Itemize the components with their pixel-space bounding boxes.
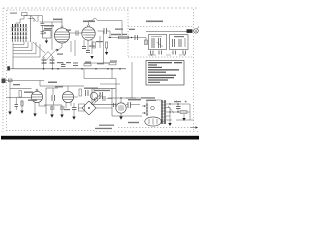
record player box [92, 89, 116, 105]
can capacitor [79, 104, 85, 111]
antenna lead-in staircase [12, 16, 31, 32]
tuning arrow [46, 49, 57, 61]
filter choke [180, 111, 187, 114]
V3 leads [35, 102, 46, 114]
power transformer T2 primary [146, 103, 148, 116]
T2 top lead [147, 100, 162, 103]
AVC dropping wire [104, 31, 111, 63]
V1 screen components [84, 36, 100, 54]
cap C4a [82, 47, 86, 49]
ground arrow mid [20, 111, 23, 114]
page edge dashed rule [3, 7, 198, 9]
text smudges [10, 13, 184, 130]
node dots on bus [43, 68, 121, 70]
notes text lines [148, 62, 182, 83]
terminal blob [7, 66, 10, 70]
plate resistor R6 [79, 89, 81, 96]
IF wiring row [108, 37, 146, 39]
rectifier tube V5 [116, 103, 126, 113]
cable bundle to plug [187, 29, 193, 33]
vertical from power to audio [126, 62, 146, 98]
T1 windings [152, 38, 154, 48]
B+ wires [166, 104, 190, 120]
cathode resistor R7 [21, 100, 23, 108]
switch wiper diagonal [33, 42, 45, 53]
comp above bus 2 [73, 63, 78, 66]
audio line [7, 97, 32, 99]
pilot wire [176, 119, 194, 121]
speaker feed wire [146, 31, 188, 33]
coupling cap C6 [52, 95, 55, 101]
antenna terminal box [22, 13, 28, 16]
V1 top lead [40, 18, 62, 26]
cap C4 [86, 51, 90, 53]
chassis dashed border vertical x128 [127, 10, 129, 58]
volume control line [4, 80, 44, 82]
phono jack diamond [82, 101, 96, 115]
electrolytic cap C7 [50, 107, 55, 109]
speaker field coil box [170, 35, 189, 50]
wire hook 3 [13, 42, 32, 51]
plug P1 [194, 29, 199, 34]
antenna wire lower [28, 19, 34, 23]
ground arrow ps [169, 112, 171, 123]
first audio tube V3 [31, 91, 42, 102]
speaker box dashed top [128, 26, 194, 28]
wire hook 2 [13, 42, 28, 48]
plus marks [175, 100, 187, 102]
grid cap C0 [42, 16, 51, 31]
wire hook 4 [13, 42, 36, 54]
wire above bus [84, 62, 108, 64]
converter tube V1 [54, 28, 69, 43]
grid resistor R5 [19, 91, 21, 98]
band switch diagonal [31, 16, 37, 22]
resistor R3 [93, 42, 95, 48]
V3 grid cap [36, 89, 38, 91]
IF amp tube V2 [82, 27, 95, 40]
small cap [135, 35, 138, 40]
tuning gang capacitor C1 [43, 52, 53, 58]
AVC bus wire [8, 68, 126, 70]
ground arrow under V3 [33, 114, 36, 117]
V1 grid cap circle [61, 26, 63, 28]
coil tap rungs [10, 28, 28, 39]
electrolytic cap C8 [60, 107, 65, 109]
page fold dashed line [96, 130, 198, 132]
primary terminals [144, 105, 146, 114]
caps right of V5 [128, 102, 131, 108]
on/off switch circle [151, 106, 155, 110]
dropper to speaker plug [145, 38, 147, 45]
ground arrow ps2 [183, 114, 185, 118]
chassis dashed border bottom right segment [118, 127, 194, 129]
speaker caps row [151, 51, 154, 55]
filter cap C10 [176, 107, 181, 109]
screen caps near V2 [104, 28, 107, 34]
chassis dashed border top [7, 9, 128, 11]
cathode cap [15, 105, 19, 107]
oscillator coil L1 windings [13, 24, 27, 42]
bus left terminal [12, 57, 14, 69]
ground arrow [90, 56, 93, 59]
coil return nested wires [12, 43, 14, 58]
T2 core and secondary [162, 100, 165, 124]
interstage wires [71, 40, 75, 56]
coupling cap C2 [69, 32, 83, 34]
chassis dashed border left outer [2, 8, 4, 134]
V2 grid cap circle [88, 25, 90, 27]
wire hook 5 [13, 44, 40, 57]
cap bars right [100, 92, 103, 99]
diagonal resistor [168, 106, 174, 113]
volume control pot [2, 79, 6, 84]
speaker output transformer T1 box [149, 35, 167, 50]
oscillator padder box [43, 31, 52, 39]
second cap bars [41, 32, 45, 34]
top audio wire [40, 85, 84, 87]
field coil windings [173, 39, 175, 47]
caps left of V5 [114, 103, 116, 107]
resistor R [119, 36, 129, 39]
output tube V4 [62, 91, 73, 102]
ground arrow left [8, 112, 11, 115]
cap bars [86, 90, 89, 96]
AVC resistor [106, 42, 108, 48]
caps tie wire [148, 54, 182, 56]
switch spine [30, 16, 32, 43]
small socket circle [90, 92, 97, 99]
cap C9 [72, 108, 77, 110]
V1 bottom lead [58, 43, 63, 50]
pot terminal box [9, 79, 13, 82]
notes text box [146, 61, 184, 86]
dashed-line end arrow [191, 127, 196, 129]
shield wire [51, 22, 53, 50]
secondary taps [166, 108, 172, 121]
V2 grid top wire with hop [89, 21, 123, 37]
wire hook 1 [13, 42, 24, 45]
wire hop [93, 18, 98, 20]
rectifier tube V6 [145, 117, 161, 126]
chassis dashed border bottom left segment [6, 130, 96, 132]
footer black bar [1, 136, 199, 140]
comp above bus 3 [109, 63, 116, 65]
bus hanger comps: cap above bus [61, 65, 66, 67]
chassis dashed border left inner [6, 10, 8, 131]
speaker box dashed bottom [128, 56, 194, 58]
antenna wire upper [31, 16, 38, 23]
below-bus wires [84, 69, 120, 88]
line down from pot [9, 81, 11, 112]
chassis dashed border right [193, 9, 195, 130]
grid wire [10, 88, 32, 90]
node dots [169, 103, 178, 112]
resistor above bus [84, 64, 91, 66]
coupling wires [44, 88, 62, 114]
